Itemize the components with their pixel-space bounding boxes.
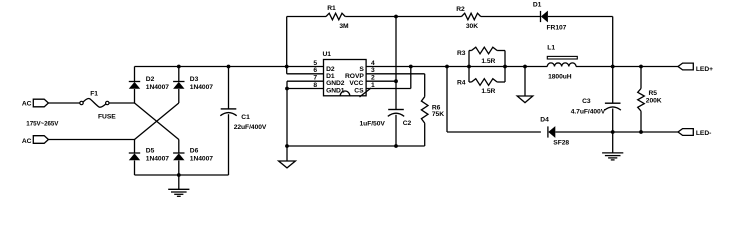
pin 6 number xyxy=(313,67,317,74)
wire AC2 to bridge node B xyxy=(48,139,134,141)
svg-text:1N4007: 1N4007 xyxy=(146,155,169,162)
pin 1 number xyxy=(371,82,375,89)
ground arrow at sense node xyxy=(517,67,533,103)
svg-text:1N4007: 1N4007 xyxy=(190,155,213,162)
resistor R1 3M xyxy=(326,5,349,30)
svg-text:GND1: GND1 xyxy=(326,88,345,95)
U1 inner label S xyxy=(359,66,364,73)
wire S rail (pin4 to LED+) xyxy=(366,66,547,68)
svg-text:U1: U1 xyxy=(323,51,332,58)
svg-text:1.5R: 1.5R xyxy=(481,58,495,65)
U1 inner label GND2 xyxy=(326,80,345,87)
wire pin3 stub xyxy=(366,73,425,75)
svg-text:C1: C1 xyxy=(241,114,250,121)
svg-text:D2: D2 xyxy=(146,76,155,83)
svg-text:3: 3 xyxy=(371,67,375,74)
node C1 top junction xyxy=(227,65,231,69)
resistor R4 1.5R xyxy=(457,79,505,95)
node R3R4 right junction xyxy=(503,65,507,69)
wire bridge cross B (D3 to AC2/D5) xyxy=(135,103,179,140)
svg-text:GND2: GND2 xyxy=(326,80,345,87)
wire D1 to top right corner xyxy=(548,16,613,18)
wire pin8 stub xyxy=(287,88,324,90)
svg-text:S: S xyxy=(359,66,364,73)
wire GND rail xyxy=(287,145,425,147)
svg-text:75K: 75K xyxy=(432,111,444,118)
capacitor C1 22uF/400V xyxy=(220,67,267,176)
node VCC rail junction xyxy=(394,15,398,19)
LED- output connector xyxy=(678,129,711,137)
node pin5 junction xyxy=(285,65,289,69)
svg-text:4.7uF/400V: 4.7uF/400V xyxy=(571,108,606,115)
resistor R6 75K xyxy=(421,97,444,123)
node D3 top junction xyxy=(177,65,181,69)
svg-text:D5: D5 xyxy=(146,147,155,154)
wire top rail left lead xyxy=(287,16,326,18)
svg-text:200K: 200K xyxy=(646,98,662,105)
AC line input connector J1 (line) xyxy=(22,99,49,107)
diode D5 1N4007 xyxy=(129,140,169,176)
svg-text:D4: D4 xyxy=(540,116,549,123)
svg-text:CS: CS xyxy=(354,88,364,95)
svg-text:D2: D2 xyxy=(326,66,335,73)
wire bridge cross A (AC1 to D6) xyxy=(135,103,179,140)
wire pin6 stub xyxy=(287,73,324,75)
svg-text:R4: R4 xyxy=(457,79,466,86)
diode D4 SF28 xyxy=(540,116,569,146)
pin 7 number xyxy=(313,75,317,82)
svg-text:AC: AC xyxy=(22,138,32,145)
U1 pin1 slash (CS active low) xyxy=(360,88,372,97)
wire VCC drop to C2 xyxy=(395,17,397,110)
wire pin2 stub xyxy=(366,80,396,82)
capacitor C3 4.7uF/400V xyxy=(571,67,621,133)
svg-text:R3: R3 xyxy=(457,50,466,57)
fuse F1 xyxy=(80,90,116,120)
svg-text:FUSE: FUSE xyxy=(98,114,116,121)
wire S drop to D4 xyxy=(446,67,448,133)
svg-text:R1: R1 xyxy=(327,5,336,12)
wire R3R4 left node xyxy=(468,51,470,83)
wire GND bus vertical xyxy=(286,81,288,146)
U1 inner label CS xyxy=(354,88,364,95)
diode D3 1N4007 xyxy=(173,67,213,104)
node pin2 VCC junction xyxy=(394,79,398,83)
capacitor C2 1uF/50V xyxy=(360,110,412,147)
resistor R2 30K xyxy=(456,6,481,30)
wire R3R4 right node xyxy=(504,51,506,83)
wire R2 to D1 xyxy=(481,16,541,18)
svg-text:R5: R5 xyxy=(649,90,658,97)
svg-text:D3: D3 xyxy=(190,76,199,83)
svg-text:AC: AC xyxy=(22,100,32,107)
svg-text:30K: 30K xyxy=(466,23,478,30)
LED+ output connector xyxy=(678,63,713,73)
label 175V~265V xyxy=(26,120,59,127)
diode D2 1N4007 xyxy=(129,67,169,104)
svg-text:C2: C2 xyxy=(403,120,412,127)
wire R6 to GND rail xyxy=(424,123,426,146)
U1 inner label VCC xyxy=(349,80,363,87)
pin 2 number xyxy=(371,75,375,82)
svg-text:3M: 3M xyxy=(339,23,349,30)
ground earth symbol at bridge xyxy=(168,175,189,196)
node C2 bottom junction xyxy=(394,144,398,148)
op-amp U1 LED driver IC xyxy=(323,51,367,96)
U1 inner label D2 xyxy=(326,66,335,73)
wire R6 riser xyxy=(424,74,426,97)
wire D4 rail left xyxy=(447,131,541,133)
U1 inner label D1 xyxy=(326,73,335,80)
wire pin7 stub xyxy=(287,80,324,82)
node S-D4 junction xyxy=(445,65,449,69)
svg-text:VCC: VCC xyxy=(349,80,363,87)
resistor R3 1.5R xyxy=(457,47,505,65)
svg-text:1.5R: 1.5R xyxy=(481,88,495,95)
diode D1 FR107 xyxy=(533,1,567,31)
svg-text:LED-: LED- xyxy=(696,130,711,137)
svg-text:22uF/400V: 22uF/400V xyxy=(234,124,267,131)
pin 5 number xyxy=(313,60,317,67)
AC neutral input connector J2 (neutral) xyxy=(22,136,49,145)
svg-text:R2: R2 xyxy=(456,6,465,13)
U1 inner label ROVP xyxy=(345,73,364,80)
wire D4 to LED- connector xyxy=(555,131,678,133)
wire left bus vertical xyxy=(286,17,288,74)
wire pin1 stub xyxy=(366,88,411,90)
svg-text:L1: L1 xyxy=(547,44,555,51)
node R3R4 left junction xyxy=(467,65,471,69)
node pin1-S junction xyxy=(409,65,413,69)
svg-text:1N4007: 1N4007 xyxy=(190,84,213,91)
wire top right drop xyxy=(612,17,614,67)
U1 inner label GND1 xyxy=(326,88,345,95)
svg-text:LED+: LED+ xyxy=(696,66,713,73)
svg-text:D6: D6 xyxy=(190,147,199,154)
node L1 left junction xyxy=(523,65,527,69)
svg-text:1uF/50V: 1uF/50V xyxy=(360,120,386,127)
svg-text:SF28: SF28 xyxy=(553,139,569,146)
wire bridge bottom rail xyxy=(135,174,229,176)
node D6 bottom junction xyxy=(177,173,181,177)
node pin8 junction xyxy=(285,87,289,91)
pin 3 number xyxy=(371,67,375,74)
resistor R5 200K xyxy=(638,67,662,133)
ground arrow at GND bus xyxy=(279,146,296,168)
wire DC+ rail (bridge top) xyxy=(135,66,324,68)
pin 8 number xyxy=(313,82,317,89)
diode D6 1N4007 xyxy=(173,140,213,176)
node C3 bottom junction xyxy=(611,130,615,134)
svg-text:C3: C3 xyxy=(582,98,591,105)
svg-text:1N4007: 1N4007 xyxy=(146,84,169,91)
node R5 bottom junction xyxy=(639,130,643,134)
svg-text:D1: D1 xyxy=(533,1,542,8)
svg-text:5: 5 xyxy=(313,60,317,67)
pin 4 number xyxy=(371,60,375,67)
inductor L1 1800uH xyxy=(547,44,577,80)
ground earth symbol at output xyxy=(602,132,623,160)
wire pin1 riser xyxy=(410,67,412,89)
node R5 top junction xyxy=(639,65,643,69)
wire fuse to bridge node A xyxy=(109,102,135,104)
wire top rail R1 to R2 xyxy=(345,16,461,18)
node C3 top junction xyxy=(611,65,615,69)
svg-text:1800uH: 1800uH xyxy=(548,74,572,81)
node GND rail left junction xyxy=(285,144,289,148)
wire L1 to LED+ rail xyxy=(576,66,678,68)
svg-text:6: 6 xyxy=(313,67,317,74)
svg-text:FR107: FR107 xyxy=(547,25,567,32)
svg-text:F1: F1 xyxy=(90,90,98,97)
wire AC1 to fuse xyxy=(48,102,80,104)
svg-text:175V~265V: 175V~265V xyxy=(26,120,59,127)
